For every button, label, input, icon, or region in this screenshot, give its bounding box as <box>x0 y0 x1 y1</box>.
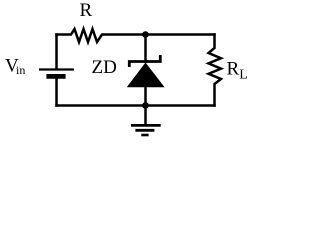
svg-text:ZD: ZD <box>92 57 117 78</box>
svg-text:R: R <box>80 0 93 21</box>
